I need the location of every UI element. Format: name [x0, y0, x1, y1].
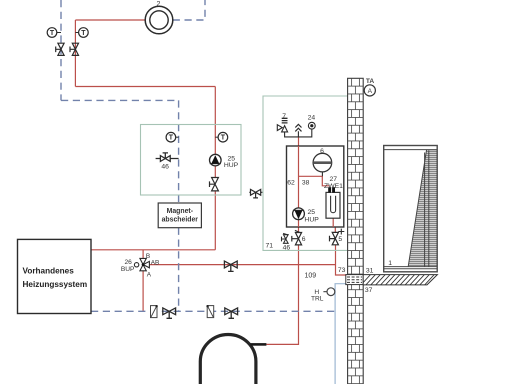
wire blue dashed return left vertical from top edge: [60, 0, 62, 100]
wire red flow left vertical: [74, 20, 76, 87]
svg-text:HUP: HUP: [224, 162, 239, 169]
existing heating system box: [18, 239, 92, 313]
svg-text:24: 24: [308, 115, 316, 122]
boiler cabinet: [287, 146, 344, 227]
valve shut-off on return top-left: [56, 43, 64, 55]
valve shut-off 6 below boiler left: [292, 233, 302, 245]
wire blue dashed bottom return horizontal: [91, 310, 335, 312]
svg-text:62: 62: [287, 180, 295, 187]
svg-text:T: T: [169, 135, 174, 142]
svg-text:73: 73: [338, 267, 346, 274]
wire blue dashed return horizontal: [61, 99, 179, 101]
thermometer sensor T1 on return: [47, 28, 61, 38]
wire red flow top-left horizontal to pump: [75, 19, 145, 21]
expansion vessel 6: [313, 153, 332, 176]
strainer on return line 2: [206, 305, 213, 318]
wire blue dashed pump return to top edge: [173, 0, 205, 20]
valve (handle down) outside unit box: [249, 189, 262, 198]
pressure gauge 24: [308, 122, 315, 129]
wire blue dashed return vertical to magnet separator: [178, 100, 180, 203]
valve on AB line (handle down): [224, 261, 237, 271]
svg-text:27: 27: [330, 176, 338, 183]
green boundary box hydraulic module: [141, 125, 242, 196]
wire red valve down to bottom tank stub: [266, 245, 298, 345]
valve on return line 1 (handle down): [163, 308, 176, 318]
wire red flow vertical into green box: [214, 87, 216, 155]
wire red valve5 down and into wall duct: [336, 245, 346, 275]
wire blue dashed return magnet separator down: [178, 228, 180, 312]
3-way valve 26 BUP: [134, 258, 149, 270]
svg-text:T: T: [81, 30, 86, 37]
cap mark on valve 6: [295, 230, 302, 233]
thermometer sensor T3 on return in green box: [166, 132, 179, 142]
svg-text:1: 1: [388, 260, 392, 267]
wire red branch to expansion vessel and ZWE1: [299, 176, 330, 186]
wire red 3-way valve A down to return line: [142, 271, 144, 312]
wire red boiler bottom to valve5: [334, 227, 336, 233]
wire red flow pump to valve: [214, 165, 216, 178]
svg-text:71: 71: [266, 242, 274, 249]
svg-text:46: 46: [161, 163, 169, 170]
wire red flow valve down to corner: [214, 191, 216, 250]
svg-text:Vorhandenes: Vorhandenes: [23, 266, 75, 275]
svg-text:A: A: [368, 88, 373, 95]
svg-text:TRL: TRL: [311, 295, 324, 302]
wire red boiler pump to bottom valve: [298, 219, 300, 232]
svg-text:5: 5: [338, 236, 342, 243]
heat pump unit 1: [384, 146, 438, 272]
svg-text:AB: AB: [151, 259, 160, 266]
svg-text:31: 31: [366, 267, 374, 274]
safety valve 7: [277, 118, 287, 132]
thermometer sensor T4 on flow in green box: [215, 132, 227, 142]
wire red ZWE1 down to boiler bottom: [332, 218, 334, 227]
pump 25 HUP (boiler, triangle down): [293, 208, 305, 220]
wire red AB horizontal to boiler return: [150, 264, 336, 266]
svg-text:T: T: [221, 135, 226, 142]
svg-text:abscheider: abscheider: [162, 216, 199, 223]
svg-text:6: 6: [302, 236, 306, 243]
green boundary box heat pump unit: [263, 96, 348, 250]
svg-text:B: B: [146, 253, 150, 260]
pump 2 (circulation pump top): [145, 6, 173, 34]
wire red flow horizontal mid: [75, 86, 215, 88]
svg-text:38: 38: [302, 180, 310, 187]
tank connection stub: [251, 343, 267, 346]
svg-text:TA: TA: [366, 78, 375, 85]
svg-text:HUP: HUP: [304, 217, 319, 224]
manifold line safety group: [285, 129, 312, 137]
air vent: [295, 124, 301, 131]
svg-text:Magnet-: Magnet-: [167, 208, 194, 215]
wire red flow horizontal to existing heating system box: [91, 249, 215, 251]
valve shut-off on flow top-left: [70, 43, 79, 55]
mini fill/drain valve 46 below boiler: [282, 233, 289, 243]
svg-text:Heizungssystem: Heizungssystem: [23, 280, 88, 289]
svg-text:46: 46: [283, 245, 291, 252]
cross handle on valve 5: [338, 229, 344, 235]
valve shut-off 5 below boiler right: [330, 232, 339, 244]
wire red branch down to 3-way valve: [142, 250, 144, 259]
wall duct sleeve 73: [346, 275, 363, 285]
svg-text:BUP: BUP: [121, 266, 135, 273]
wire red boiler flow vertical: [298, 137, 300, 208]
outdoor sensor TA: [364, 85, 375, 96]
svg-text:6: 6: [320, 148, 324, 155]
thermometer sensor T2 on flow: [75, 28, 88, 38]
wire light blue TRL return vertical to wall duct: [335, 284, 346, 384]
svg-text:2: 2: [157, 1, 161, 8]
wire red boiler flow vertical (inside): [299, 146, 334, 227]
svg-text:T: T: [50, 30, 55, 37]
sensor TRL: [323, 288, 334, 296]
magnet separator box: [158, 203, 201, 228]
pump 25 HUP (green box, triangle up): [210, 154, 222, 166]
svg-text:25: 25: [308, 209, 316, 216]
hatched duct band 31: [360, 274, 445, 287]
strainer on return line 1: [151, 305, 158, 318]
svg-text:7: 7: [282, 113, 286, 120]
svg-text:ZWE1: ZWE1: [324, 183, 343, 190]
electric heater ZWE1: [326, 187, 340, 218]
valve 46 fill/drain in green box: [156, 153, 179, 162]
svg-text:109: 109: [304, 272, 316, 279]
bottom cylinder tank: [200, 335, 256, 384]
brick wall: [348, 78, 364, 384]
valve on return line 2 (handle down): [225, 308, 238, 318]
valve shut-off below pump HUP in green box: [210, 178, 219, 191]
svg-text:A: A: [147, 272, 152, 279]
svg-text:37: 37: [365, 287, 373, 294]
